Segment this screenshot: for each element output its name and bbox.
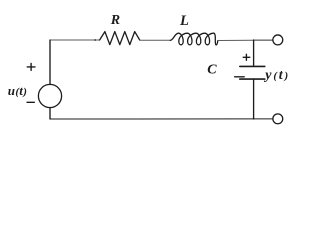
plus sign at capacitor	[243, 54, 250, 60]
capacitor C bottom plate	[240, 78, 265, 80]
svg-text:C: C	[207, 63, 217, 78]
minus sign at source	[27, 101, 34, 103]
wire below source	[49, 108, 51, 119]
junction dot	[94, 39, 96, 41]
wire capacitor branch upper	[253, 40, 255, 66]
wire bottom horizontal	[50, 118, 273, 120]
terminal bottom-right	[273, 114, 283, 124]
svg-text:u(t): u(t)	[8, 83, 27, 98]
wire junction to top-right terminal	[254, 39, 273, 41]
svg-text:R: R	[110, 13, 120, 28]
source u(t) circle	[38, 84, 61, 107]
wire top-left horizontal	[50, 39, 100, 41]
svg-text:L: L	[179, 13, 189, 29]
inductor L coil	[170, 33, 218, 45]
svg-text:y(t): y(t)	[263, 68, 288, 83]
resistor R	[100, 32, 140, 45]
wire left vertical	[49, 40, 51, 84]
minus sign at capacitor	[235, 76, 245, 78]
terminal top-right	[273, 35, 283, 45]
capacitor C top plate	[240, 65, 265, 67]
wire capacitor branch lower	[253, 79, 255, 119]
wire inductor to top-right terminal	[218, 39, 254, 41]
wire between resistor and inductor	[140, 39, 171, 41]
plus sign at source	[27, 63, 35, 70]
